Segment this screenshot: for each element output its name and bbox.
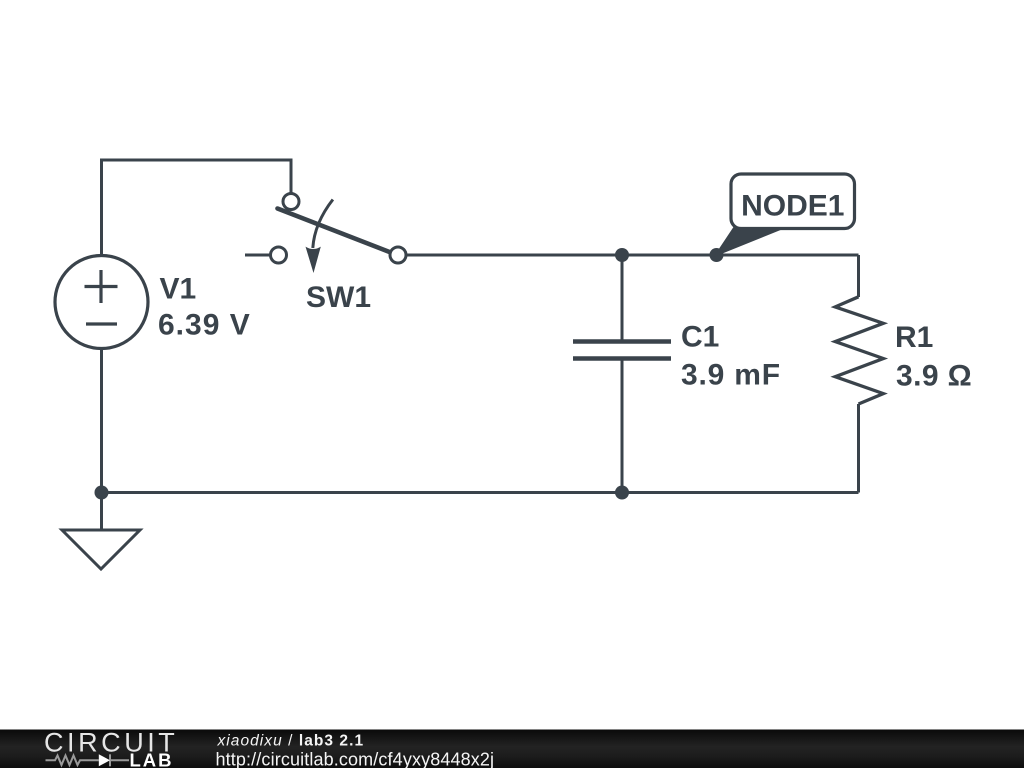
wire V1 bottom to ground [100, 349, 103, 529]
V1 plus sign [85, 285, 118, 288]
wire R1 bottom lead [857, 404, 860, 493]
wire C1 top lead [621, 255, 624, 340]
wire C1 bottom lead [621, 360, 624, 493]
SW1 actuation arrow arc [313, 200, 333, 249]
footer attribution text [216, 732, 495, 768]
node NODE1 flag [716, 174, 855, 255]
NODE1 pointer triangle [716, 228, 783, 255]
NODE1 rounded box [731, 174, 855, 229]
svg-text:6.39 V: 6.39 V [158, 309, 251, 342]
capacitor C1 [573, 342, 671, 359]
SW1 right terminal circle [390, 247, 406, 263]
svg-text:http://circuitlab.com/cf4yxy84: http://circuitlab.com/cf4yxy8448x2j [216, 750, 495, 768]
SW1 blade [278, 209, 390, 253]
logo resistor zigzag and diode wire [46, 754, 130, 766]
C1 bottom plate [573, 356, 671, 361]
svg-text:3.9 Ω: 3.9 Ω [896, 360, 972, 393]
SW1 left terminal circle [271, 247, 287, 263]
svg-text:R1: R1 [895, 321, 933, 354]
svg-text:C1: C1 [681, 321, 719, 354]
switch SW1 [245, 194, 406, 274]
ground [62, 530, 140, 569]
logo diode triangle [99, 754, 110, 766]
junction dot at C1 top / NODE1 net [615, 248, 629, 262]
svg-text:xiaodixu / lab3 2.1: xiaodixu / lab3 2.1 [217, 732, 365, 749]
resistor R1 [835, 297, 883, 404]
wire V1 top to switch [102, 160, 292, 255]
SW1 arrow head [306, 247, 321, 273]
svg-text:SW1: SW1 [306, 281, 371, 314]
svg-text:LAB: LAB [130, 750, 174, 768]
svg-text:3.9 mF: 3.9 mF [681, 359, 781, 392]
junction dot at V1 bottom / ground rail [95, 486, 109, 500]
junction dot at C1 bottom rail [615, 486, 629, 500]
CircuitLab logo [44, 728, 178, 768]
C1 top plate [573, 339, 671, 344]
wire bottom rail [102, 491, 859, 494]
V1 circle body [55, 256, 148, 349]
svg-text:V1: V1 [160, 272, 197, 305]
voltage source V1 [55, 256, 148, 349]
V1 minus sign [86, 322, 117, 325]
wire R1 top lead [857, 255, 860, 297]
footer bar [0, 730, 1024, 768]
wire switch right to R1 top [406, 254, 859, 257]
svg-text:NODE1: NODE1 [741, 190, 844, 223]
SW1 left terminal lead [245, 254, 270, 257]
junction dot at NODE1 flag attachment [710, 248, 724, 262]
SW1 top terminal circle [283, 194, 299, 210]
